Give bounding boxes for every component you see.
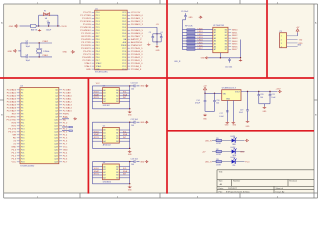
svg-text:P1.0/T2: P1.0/T2: [83, 12, 91, 14]
svg-text:P2.5: P2.5: [122, 54, 126, 56]
svg-text:B4: B4: [116, 141, 118, 143]
svg-text:A2: A2: [214, 34, 216, 37]
svg-text:Number: Number: [233, 181, 240, 183]
svg-text:P1.3: P1.3: [96, 21, 100, 23]
svg-text:SDA: SDA: [123, 170, 128, 173]
svg-text:SDAT: SDAT: [94, 133, 100, 136]
svg-text:P2.3/A11_1: P2.3/A11_1: [131, 59, 143, 62]
svg-text:P3.6: P3.6: [96, 57, 100, 59]
svg-text:LED0: LED0: [198, 28, 204, 30]
svg-text:B0: B0: [116, 130, 118, 132]
svg-text:P1.2: P1.2: [96, 18, 100, 20]
svg-text:B1: B1: [225, 32, 227, 34]
svg-text:INT1: INT1: [11, 126, 17, 128]
svg-text:2021/9/27: 2021/9/27: [228, 188, 238, 190]
svg-text:Q18: Q18: [54, 144, 58, 146]
svg-text:R3: R3: [216, 159, 218, 161]
svg-text:LED2: LED2: [231, 147, 236, 149]
svg-text:XTAL1: XTAL1: [84, 65, 91, 68]
svg-text:A2: A2: [103, 95, 105, 98]
svg-text:U2 74HC245: U2 74HC245: [213, 25, 224, 27]
svg-text:A0: A0: [103, 129, 105, 132]
svg-text:P1.3: P1.3: [63, 132, 68, 134]
svg-text:GND: GND: [140, 86, 145, 88]
svg-text:104: 104: [131, 125, 134, 127]
svg-text:A4: A4: [103, 140, 105, 143]
svg-text:SCLK: SCLK: [94, 168, 100, 170]
svg-text:XTAL2: XTAL2: [84, 62, 91, 65]
svg-text:DS1302: DS1302: [103, 105, 110, 107]
svg-text:VCC: VCC: [63, 147, 68, 149]
svg-text:SCLK: SCLK: [94, 92, 100, 94]
svg-text:Q7: Q7: [55, 111, 58, 113]
svg-text:A5: A5: [214, 43, 216, 46]
svg-text:P4.6: P4.6: [63, 159, 68, 161]
svg-text:P2.6: P2.6: [122, 51, 126, 53]
svg-text:Q8: Q8: [55, 114, 58, 116]
svg-text:Q19: Q19: [54, 147, 58, 149]
svg-text:SEG7: SEG7: [232, 49, 238, 51]
svg-text:B3: B3: [225, 38, 227, 40]
svg-text:LED1: LED1: [231, 136, 236, 138]
svg-text:4: 4: [281, 46, 282, 48]
svg-text:Q1: Q1: [55, 93, 58, 95]
svg-text:EA/VPP_P: EA/VPP_P: [131, 38, 142, 41]
svg-text:+5V IN: +5V IN: [60, 26, 67, 28]
svg-text:P12: P12: [21, 126, 24, 128]
svg-text:P2.5/A13_3: P2.5/A13_3: [131, 53, 143, 56]
svg-text:P3.4: P3.4: [96, 51, 100, 53]
svg-text:P0.1/AD1: P0.1/AD1: [7, 92, 17, 95]
svg-text:C3: C3: [149, 32, 151, 34]
svg-text:P0.7/AD7: P0.7/AD7: [7, 110, 17, 113]
svg-text:R1: R1: [216, 138, 218, 140]
svg-text:U5: U5: [103, 125, 105, 127]
svg-text:P1.7: P1.7: [96, 33, 100, 35]
svg-text:B3: B3: [116, 138, 118, 140]
svg-text:SEG6: SEG6: [232, 46, 238, 48]
svg-text:Q23: Q23: [54, 159, 58, 161]
svg-text:P1.0: P1.0: [96, 12, 100, 14]
svg-text:P0.0/AD0: P0.0/AD0: [7, 89, 17, 92]
svg-text:P7: P7: [21, 111, 23, 113]
svg-text:12MHz: 12MHz: [43, 51, 49, 53]
svg-text:C8: C8: [26, 54, 28, 56]
svg-text:C12 104: C12 104: [131, 119, 138, 121]
svg-text:Q20: Q20: [54, 150, 58, 152]
svg-text:B3: B3: [116, 98, 118, 100]
svg-text:P5: P5: [21, 105, 23, 107]
svg-text:RST/VPD: RST/VPD: [81, 36, 91, 38]
svg-text:A2: A2: [103, 171, 105, 174]
svg-text:Q21: Q21: [54, 153, 58, 155]
svg-text:Date:: Date:: [219, 187, 224, 190]
svg-text:C21: C21: [271, 94, 274, 96]
svg-text:SEG4: SEG4: [232, 41, 238, 43]
svg-text:B1: B1: [116, 93, 118, 95]
svg-text:Q10: Q10: [54, 120, 58, 122]
svg-text:AT24C02: AT24C02: [103, 144, 111, 147]
svg-text:RST: RST: [12, 114, 17, 116]
svg-text:R2: R2: [216, 149, 218, 151]
svg-text:Q9: Q9: [55, 117, 58, 119]
svg-text:Q4: Q4: [55, 102, 58, 104]
svg-text:P4.0: P4.0: [12, 150, 17, 152]
svg-text:LED3: LED3: [231, 157, 236, 159]
svg-text:P2.6/A14_4: P2.6/A14_4: [131, 50, 143, 53]
svg-text:Q14: Q14: [54, 132, 58, 134]
svg-text:P17: P17: [21, 141, 24, 143]
svg-text:U3: U3: [103, 86, 105, 88]
svg-text:SEG1: SEG1: [232, 32, 238, 34]
svg-text:P6: P6: [21, 108, 23, 110]
svg-text:SCLK: SCLK: [94, 131, 100, 133]
svg-text:P2.1/A9_9: P2.1/A9_9: [131, 65, 142, 68]
svg-text:Q5: Q5: [55, 105, 58, 107]
svg-text:GND: GND: [63, 150, 68, 152]
svg-text:SEG3: SEG3: [232, 38, 238, 40]
svg-text:P4.4: P4.4: [63, 153, 68, 155]
svg-text:P2.7/A15: P2.7/A15: [63, 110, 73, 113]
svg-text:YEL: YEL: [232, 165, 235, 167]
svg-text:P3.7/RD: P3.7/RD: [83, 60, 92, 62]
svg-text:P2.4: P2.4: [122, 57, 126, 59]
svg-text:470R: 470R: [216, 143, 221, 145]
svg-text:PSEN/OUT: PSEN/OUT: [131, 45, 143, 47]
svg-text:P0.3/AD3_3: P0.3/AD3_3: [131, 23, 144, 26]
svg-text:P2.0/A8_8: P2.0/A8_8: [131, 68, 142, 71]
svg-text:Drawn By:: Drawn By:: [276, 191, 286, 193]
svg-text:P0.7/AD7_7: P0.7/AD7_7: [131, 35, 144, 38]
svg-text:BAT IN: BAT IN: [31, 29, 38, 32]
svg-text:P3.2: P3.2: [96, 45, 100, 47]
svg-text:P2.3: P2.3: [122, 60, 126, 62]
svg-text:A0: A0: [214, 28, 216, 31]
svg-text:470R: 470R: [216, 154, 221, 156]
svg-text:LED4: LED4: [198, 40, 204, 42]
svg-text:LED_G: LED_G: [205, 162, 212, 164]
svg-text:P18: P18: [21, 144, 24, 146]
svg-text:A3: A3: [103, 174, 105, 177]
svg-text:P0.2/AD2: P0.2/AD2: [7, 95, 17, 98]
svg-text:Q22: Q22: [54, 156, 58, 158]
svg-text:P9: P9: [21, 117, 23, 119]
svg-text:LED3: LED3: [198, 37, 204, 39]
svg-text:104: 104: [260, 97, 263, 99]
svg-text:P3.1: P3.1: [96, 42, 100, 44]
svg-text:LED_R: LED_R: [205, 140, 212, 142]
svg-text:STC89C516RD: STC89C516RD: [20, 166, 34, 168]
svg-text:P3.4/T0: P3.4/T0: [83, 51, 91, 53]
svg-text:Q0: Q0: [55, 90, 58, 92]
svg-text:P4.5: P4.5: [63, 156, 68, 158]
svg-text:470uF: 470uF: [195, 103, 201, 105]
svg-text:P3.4/T0: P3.4/T0: [8, 129, 16, 131]
svg-text:STC89C52RC: STC89C52RC: [95, 71, 108, 73]
svg-text:SDA: SDA: [123, 133, 128, 136]
svg-text:P3.1/TXD: P3.1/TXD: [7, 120, 17, 122]
svg-text:SEG2: SEG2: [232, 35, 238, 37]
svg-text:P1.4: P1.4: [96, 24, 100, 26]
svg-text:A3: A3: [214, 37, 216, 40]
svg-text:P23: P23: [21, 159, 24, 161]
svg-text:GND: GND: [86, 69, 91, 71]
svg-text:GND: GND: [96, 69, 101, 71]
svg-text:GND: GND: [297, 44, 302, 46]
svg-text:SEG0: SEG0: [232, 30, 238, 32]
svg-text:P4.7: P4.7: [63, 162, 68, 164]
svg-text:A3: A3: [103, 97, 105, 100]
svg-text:P4.3: P4.3: [12, 159, 17, 161]
svg-text:B7: B7: [225, 49, 227, 51]
svg-text:P2.0: P2.0: [122, 69, 126, 71]
svg-text:WR: WR: [12, 135, 16, 137]
svg-text:P2.6/A14: P2.6/A14: [63, 107, 73, 110]
svg-text:B0: B0: [225, 29, 227, 31]
svg-text:P4.2: P4.2: [12, 156, 17, 158]
svg-text:Q17: Q17: [54, 141, 58, 143]
svg-text:P0.4: P0.4: [122, 27, 126, 29]
svg-text:GND: GND: [226, 98, 231, 100]
svg-text:P20: P20: [21, 150, 24, 152]
svg-text:B2: B2: [116, 135, 118, 137]
svg-text:A1: A1: [103, 168, 105, 171]
svg-text:P2.1/A9: P2.1/A9: [63, 92, 72, 95]
svg-text:P3.5: P3.5: [96, 54, 100, 56]
svg-text:P4.1: P4.1: [12, 153, 17, 155]
svg-text:P3.7: P3.7: [96, 60, 100, 62]
svg-text:P2.2/A10: P2.2/A10: [63, 95, 73, 98]
svg-text:P1.3/CEX0: P1.3/CEX0: [80, 21, 92, 23]
svg-text:P0.1/AD1_1: P0.1/AD1_1: [131, 17, 144, 20]
svg-text:Q15: Q15: [54, 135, 58, 137]
svg-text:GND: GND: [140, 122, 145, 124]
svg-text:C11 104: C11 104: [131, 83, 138, 85]
svg-text:P21: P21: [21, 153, 24, 155]
svg-text:104: 104: [131, 164, 134, 166]
svg-text:GND: GND: [8, 51, 13, 53]
svg-text:C10 104: C10 104: [225, 67, 232, 69]
svg-text:U6: U6: [103, 162, 105, 164]
svg-text:P24: P24: [21, 162, 24, 164]
svg-text:P1.7/SCK: P1.7/SCK: [81, 33, 91, 35]
svg-text:P1.1: P1.1: [96, 15, 100, 17]
svg-text:P2.5/A13: P2.5/A13: [63, 104, 73, 107]
svg-text:P0.3/AD3: P0.3/AD3: [7, 98, 17, 101]
svg-text:P2: P2: [21, 96, 23, 98]
svg-text:C9 10uF: C9 10uF: [181, 11, 189, 13]
svg-text:A6: A6: [214, 45, 216, 48]
svg-text:P0.2/AD2_2: P0.2/AD2_2: [131, 20, 144, 23]
svg-text:B4: B4: [116, 101, 118, 103]
svg-text:P4: P4: [21, 102, 23, 104]
svg-text:GND: GND: [156, 50, 161, 52]
svg-text:LED2: LED2: [198, 34, 204, 36]
svg-text:RST1: RST1: [94, 174, 100, 176]
svg-text:P19: P19: [21, 147, 24, 149]
svg-text:B1: B1: [116, 133, 118, 135]
svg-text:GND: GND: [189, 17, 194, 19]
svg-text:GND: GND: [11, 147, 16, 149]
svg-text:Q2: Q2: [55, 96, 58, 98]
svg-text:A1: A1: [214, 31, 216, 34]
svg-text:GND: GND: [140, 161, 145, 163]
svg-text:P2.2: P2.2: [122, 63, 126, 65]
svg-text:P1.6/MISO: P1.6/MISO: [80, 30, 91, 32]
svg-text:C4: C4: [160, 32, 162, 34]
svg-text:B0: B0: [116, 90, 118, 92]
svg-text:GND: GND: [63, 52, 68, 54]
svg-text:RST1: RST1: [94, 137, 100, 139]
svg-text:P3.5/T1: P3.5/T1: [8, 132, 16, 134]
svg-text:RP1 10K: RP1 10K: [185, 26, 193, 28]
svg-text:SDAT: SDAT: [94, 93, 100, 96]
svg-text:P0.5/AD5: P0.5/AD5: [7, 104, 17, 107]
svg-text:C1: C1: [47, 21, 49, 23]
svg-text:P1.5/MOSI: P1.5/MOSI: [80, 27, 91, 29]
svg-text:B0: B0: [116, 166, 118, 168]
svg-text:B2: B2: [116, 172, 118, 174]
svg-text:LED6: LED6: [198, 45, 204, 47]
svg-text:SEG5: SEG5: [232, 44, 238, 46]
svg-text:P1.7: P1.7: [63, 144, 68, 146]
svg-text:P16: P16: [21, 138, 24, 140]
svg-text:SDAT: SDAT: [94, 170, 100, 173]
svg-text:RST1: RST1: [94, 97, 100, 99]
svg-text:A4: A4: [103, 177, 105, 180]
svg-text:P0.0/AD0_0: P0.0/AD0_0: [131, 14, 144, 17]
svg-text:A2: A2: [103, 134, 105, 137]
svg-text:C19: C19: [240, 109, 243, 111]
svg-text:Q11: Q11: [54, 123, 57, 125]
svg-text:P2.0/A8: P2.0/A8: [63, 89, 72, 92]
svg-text:VCC: VCC: [11, 162, 16, 164]
svg-text:VCC: VCC: [96, 83, 101, 85]
svg-text:P1.5: P1.5: [96, 27, 100, 29]
svg-text:1: 1: [281, 36, 282, 38]
svg-text:P0: P0: [21, 90, 23, 92]
svg-text:B1: B1: [116, 169, 118, 171]
svg-text:F1: F1: [44, 11, 46, 13]
svg-text:A0: A0: [103, 165, 105, 168]
svg-text:A3: A3: [103, 137, 105, 140]
svg-text:P3.0/RXD: P3.0/RXD: [81, 39, 91, 41]
svg-text:XTAL1: XTAL1: [42, 54, 49, 57]
svg-text:A0: A0: [103, 89, 105, 92]
svg-text:A7: A7: [214, 48, 216, 51]
svg-text:P2.7/A15_5: P2.7/A15_5: [131, 47, 143, 50]
svg-text:P1.6: P1.6: [96, 30, 100, 32]
svg-text:P15: P15: [21, 135, 24, 137]
svg-text:PSEN: PSEN: [63, 114, 69, 116]
svg-text:P1.2/ECI: P1.2/ECI: [82, 18, 91, 20]
svg-text:P1.4/SS: P1.4/SS: [83, 24, 92, 26]
svg-text:Q24: Q24: [54, 162, 58, 164]
svg-text:B2: B2: [116, 96, 118, 98]
svg-text:SDA: SDA: [123, 93, 128, 96]
svg-text:P2.1: P2.1: [122, 66, 126, 68]
svg-text:GND: GND: [9, 26, 14, 28]
svg-text:100uF: 100uF: [46, 30, 52, 32]
svg-text:C7: C7: [26, 41, 28, 43]
svg-text:P0.0: P0.0: [122, 15, 126, 17]
svg-text:LED5: LED5: [198, 43, 204, 45]
svg-text:LED_N: LED_N: [174, 61, 181, 63]
svg-text:RD: RD: [13, 138, 17, 140]
svg-text:LED1: LED1: [198, 31, 204, 33]
svg-text:P2.4/A12: P2.4/A12: [63, 101, 73, 104]
svg-text:B2: B2: [225, 35, 227, 37]
svg-text:P3.5/T1: P3.5/T1: [83, 54, 91, 56]
svg-text:PSEN: PSEN: [121, 45, 127, 47]
svg-text:Q13: Q13: [54, 129, 58, 131]
svg-text:Q16: Q16: [54, 138, 58, 140]
svg-text:Q12: Q12: [54, 126, 58, 128]
svg-text:3: 3: [281, 43, 282, 45]
svg-text:P3.1/TXD: P3.1/TXD: [81, 42, 91, 44]
svg-text:P3.6/WR: P3.6/WR: [82, 57, 91, 59]
svg-text:P3.0/RXD: P3.0/RXD: [6, 117, 16, 119]
svg-text:P3.3: P3.3: [96, 48, 100, 50]
svg-text:DS18B20: DS18B20: [103, 181, 111, 183]
svg-text:470R: 470R: [216, 164, 221, 166]
svg-text:P22: P22: [21, 156, 24, 158]
svg-text:P3.3/INT1: P3.3/INT1: [81, 48, 92, 50]
svg-text:ALE/PROG: ALE/PROG: [131, 41, 142, 44]
svg-text:P0.6: P0.6: [122, 33, 126, 35]
svg-text:P0.6/AD6: P0.6/AD6: [7, 107, 17, 110]
svg-text:P2.7: P2.7: [122, 48, 126, 50]
svg-text:P0.4/AD4: P0.4/AD4: [7, 101, 17, 104]
svg-text:P3.2/INT0: P3.2/INT0: [81, 45, 92, 47]
svg-text:C14: C14: [196, 100, 199, 102]
svg-text:B5: B5: [225, 44, 227, 46]
svg-text:Q6: Q6: [55, 108, 58, 110]
svg-text:GND: GND: [240, 151, 245, 153]
svg-text:P0.3: P0.3: [122, 24, 126, 26]
svg-text:A4: A4: [103, 100, 105, 103]
svg-text:B4: B4: [225, 41, 227, 43]
svg-text:B6: B6: [225, 46, 227, 48]
svg-text:P11: P11: [21, 123, 24, 125]
svg-text:2: 2: [281, 39, 282, 41]
svg-text:P3.0: P3.0: [96, 39, 100, 41]
svg-text:Sheet of: Sheet of: [276, 187, 284, 190]
svg-text:Revision: Revision: [289, 181, 297, 183]
svg-text:A4: A4: [214, 40, 216, 43]
svg-text:P1.5: P1.5: [63, 138, 68, 140]
svg-text:E:\Projects\sheet1.SchDoc: E:\Projects\sheet1.SchDoc: [226, 190, 250, 193]
svg-text:C16: C16: [216, 100, 219, 102]
svg-text:Q3: Q3: [55, 99, 58, 101]
svg-text:P0.1: P0.1: [122, 18, 126, 20]
svg-text:B3: B3: [116, 175, 118, 177]
svg-text:A1: A1: [103, 132, 105, 135]
svg-text:File:: File:: [219, 191, 223, 193]
svg-text:P1.6: P1.6: [63, 141, 68, 143]
svg-text:+3.3V: +3.3V: [276, 89, 282, 91]
svg-text:C13 104: C13 104: [131, 158, 138, 160]
svg-text:P0.5: P0.5: [122, 30, 126, 32]
svg-text:P0.7: P0.7: [122, 36, 126, 38]
svg-text:P1.1/T2EX: P1.1/T2EX: [80, 15, 91, 17]
svg-text:P0.2: P0.2: [122, 21, 126, 23]
svg-text:104: 104: [131, 89, 134, 91]
svg-text:INT0: INT0: [11, 123, 17, 125]
svg-text:P1.0: P1.0: [63, 123, 68, 125]
svg-text:C20: C20: [260, 94, 263, 96]
svg-text:XTAL2: XTAL2: [42, 40, 49, 43]
